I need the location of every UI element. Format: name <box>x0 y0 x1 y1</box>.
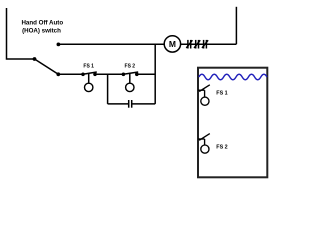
svg-text:FS 2: FS 2 <box>125 64 136 70</box>
svg-text:(HOA) switch: (HOA) switch <box>22 27 61 34</box>
svg-text:FS 2: FS 2 <box>216 145 227 151</box>
svg-text:M: M <box>169 39 176 49</box>
svg-text:FS 1: FS 1 <box>216 90 227 96</box>
svg-text:Hand Off Auto: Hand Off Auto <box>21 20 63 27</box>
svg-text:FS 1: FS 1 <box>83 64 94 70</box>
